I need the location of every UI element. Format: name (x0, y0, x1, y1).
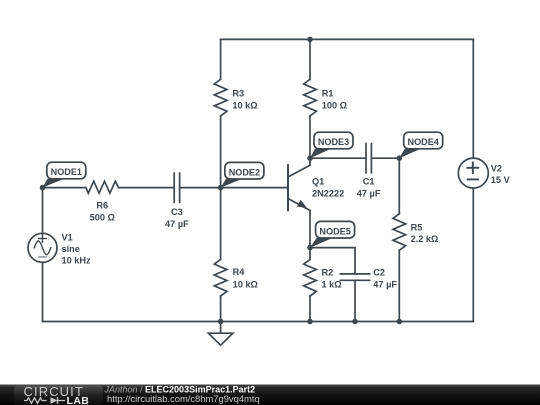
svg-text:http://circuitlab.com/c8hm7g9v: http://circuitlab.com/c8hm7g9vq4mtq (107, 393, 260, 404)
svg-text:10 kΩ: 10 kΩ (232, 101, 257, 111)
svg-text:C2: C2 (373, 267, 385, 277)
footer bar (0, 385, 540, 405)
svg-text:LAB: LAB (67, 395, 90, 405)
resistor R1 (304, 79, 317, 116)
resistor R6 (86, 181, 119, 193)
junction bottom rail C2 (352, 319, 358, 325)
svg-text:V1: V1 (62, 232, 73, 242)
node NODE5 junction (307, 245, 313, 251)
svg-text:47 µF: 47 µF (357, 188, 381, 198)
resistor R3 (214, 79, 227, 116)
svg-text:2N2222: 2N2222 (312, 188, 344, 198)
wire NODE5 to R2 (309, 248, 311, 260)
capacitor C2 (340, 274, 369, 280)
wire ground stub (220, 322, 222, 334)
wire R2 bottom lead (309, 296, 311, 322)
wire Q1 emitter to NODE5 (309, 211, 311, 248)
svg-text:15 V: 15 V (491, 175, 511, 185)
svg-text:C1: C1 (363, 176, 375, 186)
svg-text:NODE4: NODE4 (408, 137, 440, 147)
wire R1 top lead (309, 39, 311, 79)
svg-text:10 kΩ: 10 kΩ (233, 279, 258, 289)
resistor R4 (214, 259, 227, 296)
wire right rail lower (472, 188, 474, 321)
node NODE1 junction (40, 185, 46, 191)
node NODE2 junction (218, 185, 224, 191)
svg-text:C3: C3 (171, 207, 183, 217)
wire C3 to NODE2 (180, 187, 221, 189)
svg-text:sine: sine (62, 244, 80, 254)
wire NODE1 to R6 (43, 187, 86, 189)
wire R1 bottom lead (309, 116, 311, 158)
wire right rail upper (472, 39, 474, 158)
svg-text:NODE3: NODE3 (318, 137, 349, 147)
transistor Q1 (288, 158, 310, 210)
svg-text:47 µF: 47 µF (373, 279, 397, 289)
wire R3 top lead (220, 39, 222, 79)
junction bottom rail ground (218, 319, 224, 325)
svg-text:V2: V2 (491, 163, 502, 173)
svg-text:2.2 kΩ: 2.2 kΩ (411, 234, 439, 244)
wire C1 to NODE4 (371, 157, 399, 159)
svg-text:NODE5: NODE5 (319, 226, 350, 236)
node NODE3 junction (307, 155, 313, 161)
node flag NODE1 (43, 162, 86, 187)
svg-text:R2: R2 (322, 267, 334, 277)
svg-text:R4: R4 (233, 267, 246, 277)
svg-text:NODE1: NODE1 (51, 167, 82, 177)
wire NODE3 to C1 (310, 157, 366, 159)
node NODE4 junction (397, 155, 403, 161)
junction top rail R1 (307, 37, 313, 43)
wire R4 top lead (220, 188, 222, 260)
svg-text:R1: R1 (322, 88, 334, 98)
junction bottom rail R2 (307, 319, 313, 325)
wire R6 to C3 (119, 187, 174, 189)
node flag NODE2 (221, 162, 264, 187)
wire R5 bottom lead (398, 250, 400, 321)
ground (208, 333, 232, 345)
svg-text:500 Ω: 500 Ω (90, 212, 115, 222)
svg-text:R3: R3 (232, 88, 244, 98)
svg-text:R5: R5 (411, 223, 423, 233)
wire C2 bottom lead (354, 280, 356, 321)
svg-text:R6: R6 (96, 200, 108, 210)
voltage source V2 (458, 158, 488, 188)
node flag NODE4 (399, 132, 442, 158)
logo diode (51, 397, 66, 404)
node flag NODE5 (310, 221, 355, 247)
svg-text:NODE2: NODE2 (229, 167, 260, 177)
svg-text:47 µF: 47 µF (165, 219, 189, 229)
wire V1 to bottom rail (42, 262, 44, 321)
svg-text:100 Ω: 100 Ω (322, 101, 347, 111)
wire R5 top lead (398, 158, 400, 214)
svg-text:10 kHz: 10 kHz (62, 255, 92, 265)
wire NODE2 to Q1 base (221, 187, 288, 189)
wire R4 bottom lead (220, 296, 222, 322)
logo resistor zigzag (24, 398, 47, 404)
svg-text:1 kΩ: 1 kΩ (322, 279, 342, 289)
resistor R2 (304, 259, 317, 296)
svg-text:Q1: Q1 (312, 176, 324, 186)
node flag NODE3 (310, 132, 353, 158)
wire NODE5 to C2 (310, 248, 355, 274)
wire R3 bottom lead (220, 116, 222, 188)
wire top rail (221, 38, 474, 40)
capacitor C1 (366, 144, 371, 173)
voltage source V1 (28, 233, 57, 262)
junction bottom rail R5 (397, 319, 403, 325)
capacitor C3 (174, 173, 179, 202)
wire NODE1 to V1 (42, 188, 44, 234)
resistor R5 (393, 214, 406, 251)
wire bottom rail (43, 321, 474, 323)
